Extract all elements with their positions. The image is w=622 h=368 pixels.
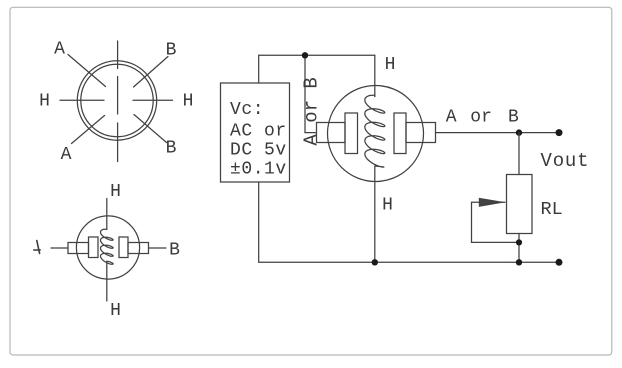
sensor symbol S2 (in circuit) xyxy=(317,86,560,182)
wiper arrow line xyxy=(472,201,506,203)
S1 left electrode plate xyxy=(89,237,99,258)
S2 right electrode plate xyxy=(394,113,406,154)
pin line W (H) xyxy=(60,99,104,101)
wire Vc bottom to ground bus xyxy=(258,182,260,262)
wire sensor top H xyxy=(374,55,376,96)
terminal dot Vout top xyxy=(556,129,563,136)
terminal dot bus end xyxy=(556,259,563,266)
svg-text:DC 5v: DC 5v xyxy=(230,141,287,161)
svg-text:H: H xyxy=(183,91,194,111)
svg-text:±0.1v: ±0.1v xyxy=(230,159,287,179)
wiper return wire xyxy=(472,202,520,242)
junction dot top tap xyxy=(302,52,308,58)
bottom bus wire xyxy=(259,261,559,263)
S1 envelope circle xyxy=(76,216,139,279)
svg-text:A: A xyxy=(446,107,457,127)
wire electrode tap down xyxy=(305,55,317,132)
S1 heater coil xyxy=(101,229,114,267)
junction dot RL on bus xyxy=(516,259,522,265)
RL bottom lead xyxy=(518,234,520,263)
svg-text:AC or: AC or xyxy=(230,122,287,142)
svg-text:H: H xyxy=(110,182,121,202)
svg-text:B: B xyxy=(166,139,177,159)
S1 label A (left, partial glyph) xyxy=(34,241,40,254)
pin line NW (A) xyxy=(68,55,106,87)
sensor symbol S1 (lower-left) xyxy=(51,199,166,302)
S2 envelope circle xyxy=(328,86,424,182)
center key line xyxy=(117,77,119,115)
pin line N xyxy=(117,41,119,69)
resistor RL body xyxy=(507,175,533,234)
svg-text:Vc:: Vc: xyxy=(230,100,264,120)
pin line SE (B) xyxy=(134,115,167,143)
svg-text:A: A xyxy=(54,40,65,60)
wire Vc top to bus xyxy=(259,55,375,83)
socket pinout outer circle xyxy=(77,61,156,140)
svg-text:Vout: Vout xyxy=(541,150,590,172)
wiper arrowhead xyxy=(479,198,506,207)
svg-text:or: or xyxy=(470,107,492,127)
pin line SW (A) xyxy=(72,116,105,144)
S1 top heater wire xyxy=(106,199,108,230)
pin line S xyxy=(117,123,119,162)
wire sensor bottom H xyxy=(374,166,376,262)
socket pinout inner circle xyxy=(81,64,153,136)
junction dot output node xyxy=(516,129,522,135)
frame bottom shadow xyxy=(13,353,609,356)
S1 left electrode lead xyxy=(68,243,89,254)
wire output to terminal xyxy=(519,132,559,134)
wire node to RL xyxy=(518,133,520,175)
S1 bottom heater wire xyxy=(106,267,108,301)
S1 right wire B xyxy=(149,247,167,249)
svg-text:H: H xyxy=(385,55,396,75)
Vc supply box xyxy=(221,83,290,182)
svg-text:H: H xyxy=(39,91,50,111)
svg-text:RL: RL xyxy=(541,199,563,220)
svg-text:A or B: A or B xyxy=(300,77,322,145)
pin line E (H) xyxy=(133,99,173,101)
pin line NE (B) xyxy=(134,57,169,88)
svg-text:B: B xyxy=(169,241,180,261)
svg-text:B: B xyxy=(166,41,177,61)
S2 right electrode lead xyxy=(406,123,436,143)
svg-text:B: B xyxy=(508,107,519,127)
S1 right electrode lead xyxy=(128,243,149,254)
junction dot wiper tap xyxy=(516,239,522,245)
svg-text:H: H xyxy=(382,196,393,216)
S2 left electrode lead xyxy=(317,123,346,143)
S1 left wire A xyxy=(51,247,68,249)
S1 right electrode plate xyxy=(119,237,128,258)
svg-text:A: A xyxy=(61,145,72,165)
S2 heater coil xyxy=(365,95,385,167)
S2 right output wire xyxy=(436,132,520,134)
svg-text:H: H xyxy=(110,301,121,321)
S2 left electrode plate xyxy=(345,113,358,154)
junction dot S2 bottom on bus xyxy=(372,259,378,265)
